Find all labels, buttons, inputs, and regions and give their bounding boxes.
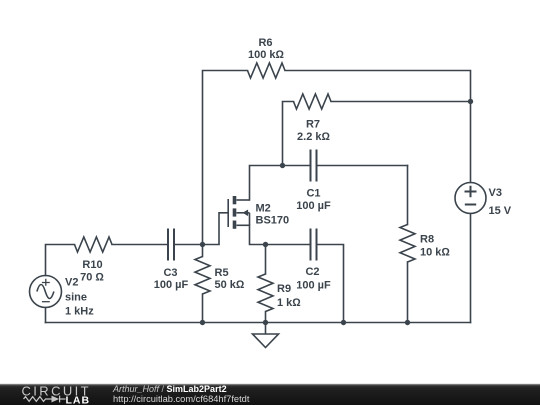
svg-text:M2: M2 (256, 203, 271, 215)
wire (285, 71, 471, 183)
CircuitLab logo (0, 380, 100, 405)
wire (112, 244, 168, 246)
voltage source V2 (sine) (30, 276, 95, 318)
svg-text:100 µF: 100 µF (296, 200, 331, 212)
wire (283, 102, 294, 166)
svg-text:C1: C1 (306, 188, 320, 200)
svg-text:V3: V3 (489, 187, 502, 199)
svg-text:C2: C2 (305, 266, 319, 278)
transistor M2 (BS170 NMOS) (219, 196, 289, 245)
resistor R5 (195, 257, 245, 294)
svg-text:BS170: BS170 (256, 215, 290, 227)
wire (250, 166, 311, 201)
svg-text:2.2 kΩ: 2.2 kΩ (297, 131, 330, 143)
wire (250, 225, 311, 244)
resistor R7 (294, 94, 331, 143)
wire (331, 101, 471, 103)
resistor R9 (258, 274, 301, 311)
svg-text:R7: R7 (306, 119, 320, 131)
wire (407, 262, 409, 323)
svg-text:R8: R8 (420, 234, 434, 246)
wire (46, 322, 471, 324)
wire (265, 312, 267, 323)
svg-text:70 Ω: 70 Ω (80, 272, 104, 284)
resistor R8 (400, 225, 450, 263)
junction at ground rail C2 (341, 320, 346, 325)
wire (407, 166, 409, 225)
junction at drain node (280, 163, 285, 168)
svg-text:15 V: 15 V (489, 205, 512, 217)
svg-text:R5: R5 (215, 267, 229, 279)
svg-text:1 kΩ: 1 kΩ (277, 297, 301, 309)
svg-text:1 kHz: 1 kHz (65, 306, 94, 318)
svg-text:V2: V2 (65, 277, 78, 289)
wire (317, 245, 344, 323)
wire (470, 214, 472, 323)
wire (317, 165, 408, 167)
svg-text:R10: R10 (82, 259, 102, 271)
svg-text:10 kΩ: 10 kΩ (420, 247, 450, 259)
junction at node R7/V3 (468, 99, 473, 104)
svg-text:LAB: LAB (66, 394, 91, 405)
svg-text:50 kΩ: 50 kΩ (215, 279, 245, 291)
svg-text:100 kΩ: 100 kΩ (248, 49, 285, 61)
wire (46, 245, 75, 276)
junction at ground rail R9 (263, 320, 268, 325)
capacitor C2 (296, 229, 331, 292)
resistor R10 (75, 237, 113, 284)
wire (202, 294, 204, 323)
wire (202, 245, 204, 257)
wire (265, 245, 267, 275)
svg-text:R6: R6 (258, 37, 272, 49)
svg-text:sine: sine (65, 292, 87, 304)
svg-text:100 µF: 100 µF (154, 279, 189, 291)
svg-text:C3: C3 (163, 267, 177, 279)
voltage source V3 (15 V) (455, 183, 512, 218)
ground (253, 323, 279, 348)
wire (45, 308, 47, 323)
capacitor C3 (154, 229, 189, 292)
resistor R6 (248, 37, 285, 78)
wire (203, 71, 248, 245)
junction at ground rail R5 (200, 320, 205, 325)
wire (174, 244, 219, 246)
svg-text:R9: R9 (277, 283, 291, 295)
capacitor C1 (296, 150, 331, 213)
junction at source node (263, 242, 268, 247)
svg-text:100 µF: 100 µF (296, 279, 331, 291)
junction at gate node (200, 242, 205, 247)
junction at ground rail R8 (405, 320, 410, 325)
